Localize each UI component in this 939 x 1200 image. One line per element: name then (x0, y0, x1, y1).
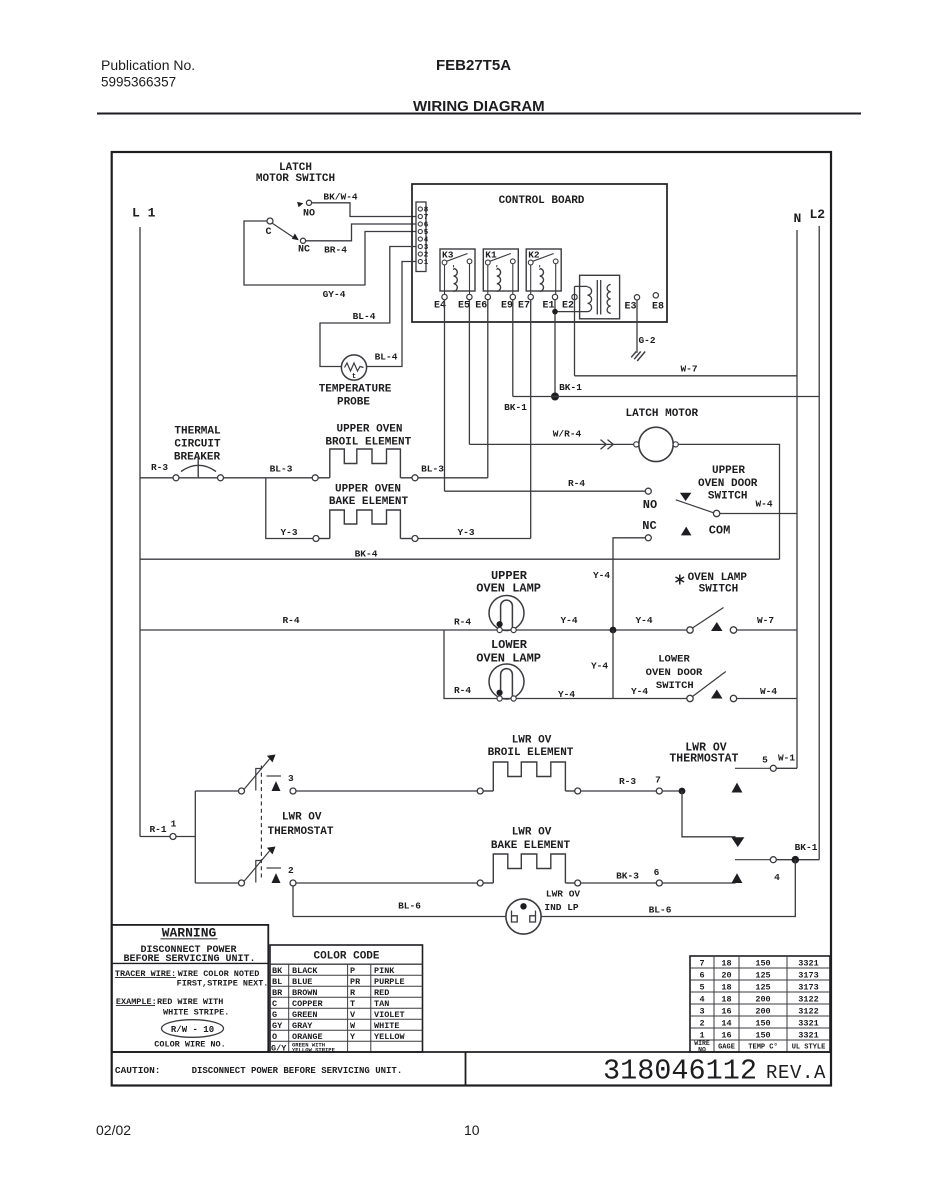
svg-text:BROIL ELEMENT: BROIL ELEMENT (325, 437, 411, 449)
svg-text:5995366357: 5995366357 (101, 75, 176, 90)
svg-text:200: 200 (755, 995, 770, 1005)
upper oven lamp (489, 596, 524, 631)
svg-text:FIRST,STRIPE NEXT.: FIRST,STRIPE NEXT. (177, 979, 269, 989)
wire R-4 lamp line (140, 629, 687, 631)
transformer T1 primary winding (588, 287, 592, 312)
junction BK-1 node (551, 393, 559, 401)
svg-text:NC: NC (298, 245, 310, 256)
terminal E4 (442, 294, 447, 299)
wire contact 5 to N (776, 767, 797, 769)
svg-text:2: 2 (288, 865, 294, 876)
wire BK-1 junction to L2 (555, 396, 819, 398)
svg-text:DISCONNECT POWER BEFORE SERVIC: DISCONNECT POWER BEFORE SERVICING UNIT. (192, 1066, 403, 1076)
svg-text:BL-4: BL-4 (353, 311, 376, 322)
svg-text:O: O (272, 1032, 277, 1042)
svg-text:Publication No.: Publication No. (101, 57, 195, 73)
terminal 7 (656, 788, 662, 794)
svg-text:GY: GY (272, 1021, 283, 1031)
svg-text:W-4: W-4 (755, 499, 772, 510)
svg-text:4: 4 (774, 872, 780, 883)
svg-text:BK-4: BK-4 (355, 549, 378, 560)
svg-text:GRAY: GRAY (292, 1021, 313, 1031)
svg-text:BROWN: BROWN (292, 988, 318, 998)
junction BK-1/BL-6 (792, 856, 800, 864)
svg-text:Y-3: Y-3 (457, 527, 474, 538)
warning divider (112, 962, 269, 964)
terminal E2 (572, 294, 577, 299)
svg-text:E9: E9 (501, 301, 513, 312)
wire bake element to E7 (418, 538, 531, 540)
upper oven broil element (312, 475, 318, 481)
wire broil element to E6 (418, 477, 488, 479)
wire lower door switch to N (737, 698, 797, 700)
latch motor switch common terminal C (267, 218, 273, 224)
svg-text:LOWER: LOWER (658, 654, 690, 666)
svg-text:E8: E8 (652, 302, 664, 313)
svg-text:BK-3: BK-3 (616, 871, 639, 882)
wire E9 vertical (512, 300, 514, 397)
svg-text:R: R (350, 988, 356, 998)
transformer T1 box (580, 275, 620, 319)
svg-text:t: t (352, 373, 356, 381)
svg-text:CIRCUIT: CIRCUIT (174, 439, 221, 451)
svg-text:R-4: R-4 (568, 478, 585, 489)
transformer T1 core (596, 280, 598, 315)
svg-text:4: 4 (699, 995, 704, 1005)
lower oven indicator lamp (506, 899, 541, 934)
wire connector pin3 BL-4 (320, 247, 416, 367)
svg-text:16: 16 (721, 1031, 731, 1041)
upper oven bake element (313, 536, 319, 542)
svg-text:3173: 3173 (798, 983, 818, 993)
terminal E9 (510, 294, 515, 299)
junction E1/transformer (552, 309, 558, 315)
svg-text:WHITE: WHITE (374, 1021, 400, 1031)
svg-text:L2: L2 (810, 207, 826, 222)
svg-text:150: 150 (755, 959, 770, 969)
svg-text:BL-6: BL-6 (649, 905, 672, 916)
svg-text:GY-4: GY-4 (323, 289, 346, 300)
wire junction elbow to lower contact (682, 791, 736, 837)
svg-text:E1: E1 (542, 301, 554, 312)
thermostat contact 5 blade (735, 767, 770, 769)
svg-text:RED: RED (374, 988, 389, 998)
wire R-4 E4 to NO (445, 490, 646, 492)
wire Y-4 vertical between lamp lines (612, 630, 614, 699)
svg-text:E3: E3 (624, 302, 636, 313)
relay K2 (526, 249, 561, 294)
svg-text:3321: 3321 (798, 1031, 818, 1041)
wire bake to terminal 6 (581, 882, 657, 884)
upper door switch NC terminal (645, 535, 651, 541)
color code table (270, 945, 423, 1052)
svg-text:COPPER: COPPER (292, 999, 324, 1009)
svg-text:TAN: TAN (374, 999, 389, 1009)
svg-text:COLOR CODE: COLOR CODE (313, 951, 379, 963)
svg-text:R/W - 10: R/W - 10 (171, 1025, 214, 1035)
svg-text:RED WIRE WITH: RED WIRE WITH (157, 997, 223, 1007)
transformer T1 secondary winding (607, 285, 611, 314)
svg-text:NC: NC (642, 519, 656, 533)
connector pin 1 (418, 259, 422, 263)
wire L1 vertical (139, 227, 141, 837)
wire C loop GY-4 to connector pin 5 (244, 221, 416, 285)
relay K1 (483, 249, 518, 294)
svg-text:NO: NO (643, 498, 657, 512)
svg-text:UL STYLE: UL STYLE (792, 1044, 826, 1052)
wire thermostat 2 to bake element (296, 882, 477, 884)
svg-text:14: 14 (721, 1019, 731, 1029)
svg-text:BK: BK (272, 966, 283, 976)
svg-text:Y-4: Y-4 (560, 615, 577, 626)
svg-text:UPPER OVEN: UPPER OVEN (335, 484, 401, 496)
svg-text:BROIL ELEMENT: BROIL ELEMENT (488, 747, 574, 759)
wire probe to connector pin1 (367, 262, 416, 367)
wire NC down Y-4 (613, 538, 645, 630)
bottom strip line (112, 1051, 831, 1053)
connector pin 7 (418, 214, 422, 218)
wire BK-4 motor return to L1 (140, 558, 780, 560)
svg-text:NO: NO (303, 209, 315, 220)
svg-text:PROBE: PROBE (337, 397, 370, 409)
svg-text:UPPER OVEN: UPPER OVEN (336, 424, 402, 436)
svg-text:Y-4: Y-4 (591, 661, 608, 672)
temperature probe (341, 355, 366, 380)
svg-text:BK/W-4: BK/W-4 (323, 192, 358, 203)
svg-text:P: P (350, 966, 355, 976)
svg-text:20: 20 (721, 971, 731, 981)
wire breaker to branch (224, 477, 313, 479)
svg-text:T: T (350, 999, 355, 1009)
svg-text:BR-4: BR-4 (324, 245, 347, 256)
svg-text:VIOLET: VIOLET (374, 1010, 405, 1020)
svg-text:GREEN: GREEN (292, 1010, 318, 1020)
terminal E1 (552, 294, 557, 299)
connector pin 6 (418, 222, 422, 226)
svg-text:LWR OV: LWR OV (282, 812, 322, 824)
wire broil to terminal 7 (581, 790, 657, 792)
svg-text:125: 125 (755, 983, 770, 993)
svg-text:Y: Y (350, 1032, 356, 1042)
svg-text:W-4: W-4 (760, 686, 777, 697)
wire W-7 E2 to N (575, 375, 798, 377)
svg-text:LATCH MOTOR: LATCH MOTOR (625, 408, 698, 420)
svg-text:Y-3: Y-3 (280, 527, 297, 538)
svg-text:3321: 3321 (798, 1019, 818, 1029)
svg-text:LOWER: LOWER (491, 638, 528, 652)
wire gauge table (690, 956, 830, 1052)
svg-text:MOTOR SWITCH: MOTOR SWITCH (256, 173, 335, 185)
latch motor (639, 427, 673, 461)
svg-text:R-3: R-3 (619, 776, 636, 787)
svg-text:OVEN DOOR: OVEN DOOR (698, 478, 758, 490)
svg-text:C: C (265, 227, 271, 238)
svg-text:N: N (794, 211, 802, 226)
wire E9 to BK-1 junction (513, 396, 555, 398)
wire E7 vertical Y-3 (530, 300, 532, 539)
svg-text:V: V (350, 1010, 356, 1020)
svg-text:TEMPERATURE: TEMPERATURE (319, 384, 392, 396)
svg-text:3321: 3321 (798, 959, 818, 969)
wire COM to N (720, 513, 797, 515)
svg-text:THERMAL: THERMAL (174, 426, 221, 438)
svg-text:200: 200 (755, 1007, 770, 1017)
wire terminal 4 to L2 junction (776, 859, 819, 861)
svg-text:G: G (272, 1010, 277, 1020)
latch motor switch NC terminal (300, 238, 305, 243)
svg-text:E5: E5 (458, 301, 470, 312)
lower oven thermostat contact 3 (239, 755, 297, 795)
svg-text:OVEN LAMP: OVEN LAMP (688, 572, 748, 584)
svg-text:R-1: R-1 (149, 824, 166, 835)
svg-text:BLACK: BLACK (292, 966, 318, 976)
svg-text:CONTROL BOARD: CONTROL BOARD (499, 195, 585, 207)
svg-text:W-1: W-1 (778, 753, 795, 764)
thermal circuit breaker (179, 477, 218, 479)
svg-text:1: 1 (699, 1031, 704, 1041)
svg-text:E2: E2 (562, 301, 574, 312)
svg-text:GAGE: GAGE (718, 1044, 735, 1052)
upper door switch NO contact marker (680, 493, 692, 501)
thermostat contact 6 marker (732, 873, 743, 883)
connector pin 3 (418, 244, 422, 248)
svg-text:10: 10 (464, 1122, 480, 1138)
svg-text:BREAKER: BREAKER (174, 452, 221, 464)
wire E4 vertical R-4 (444, 300, 446, 492)
thermostat contact 5 marker (732, 783, 743, 793)
wire N vertical (796, 230, 798, 768)
svg-text:BLUE: BLUE (292, 977, 312, 987)
terminal 4 (770, 857, 776, 863)
lower oven door switch (687, 695, 693, 701)
svg-text:BAKE ELEMENT: BAKE ELEMENT (491, 840, 571, 852)
svg-text:7: 7 (655, 775, 661, 786)
svg-text:BR: BR (272, 988, 283, 998)
svg-text:G-2: G-2 (638, 335, 655, 346)
svg-text:18: 18 (721, 983, 731, 993)
wire E3 down to ground (636, 300, 638, 353)
svg-text:R-3: R-3 (151, 462, 168, 473)
wire NC to connector pin 6 (306, 224, 416, 241)
svg-text:BL-4: BL-4 (375, 352, 398, 363)
svg-text:18: 18 (721, 995, 731, 1005)
upper door switch blade (676, 500, 714, 513)
svg-text:150: 150 (755, 1031, 770, 1041)
svg-text:BL: BL (272, 977, 282, 987)
svg-text:02/02: 02/02 (96, 1122, 131, 1138)
lower oven bake element (477, 880, 483, 886)
header rule (97, 113, 861, 115)
svg-text:18: 18 (721, 959, 731, 969)
upper door switch COM terminal (713, 510, 719, 516)
svg-text:C: C (272, 999, 277, 1009)
terminal 1 (140, 836, 170, 838)
wire latch motor return (678, 444, 779, 559)
relay K3 (440, 249, 475, 294)
terminal E8 (653, 293, 658, 298)
lower oven lamp (489, 664, 524, 699)
upper door switch NO terminal (645, 488, 651, 494)
svg-text:1: 1 (424, 259, 429, 267)
svg-text:BL-3: BL-3 (270, 464, 293, 475)
wire BL-6 drop from thermostat 2 (292, 886, 294, 917)
terminal 6 (656, 880, 662, 886)
svg-text:FEB27T5A: FEB27T5A (436, 57, 511, 74)
svg-text:LWR OV: LWR OV (546, 889, 581, 900)
svg-text:R-4: R-4 (282, 615, 299, 626)
svg-text:1: 1 (171, 819, 177, 830)
svg-text:LWR OV: LWR OV (512, 827, 552, 839)
svg-text:SWITCH: SWITCH (656, 680, 694, 692)
control board box (412, 184, 667, 322)
svg-text:CAUTION:: CAUTION: (115, 1065, 161, 1076)
lower oven thermostat contact 2 (239, 847, 297, 887)
svg-text:BK-1: BK-1 (504, 402, 527, 413)
wire branch to lower lamp (444, 630, 687, 699)
svg-text:LWR OV: LWR OV (512, 735, 552, 747)
svg-text:OVEN LAMP: OVEN LAMP (476, 651, 541, 665)
oven lamp switch (687, 627, 693, 633)
svg-text:COM: COM (709, 524, 731, 538)
svg-text:R-4: R-4 (454, 685, 471, 696)
connector block P1 (416, 202, 426, 272)
terminal E3 (634, 295, 639, 300)
wire E2 to transformer primary top (575, 285, 588, 287)
svg-text:PINK: PINK (374, 966, 395, 976)
svg-text:6: 6 (699, 971, 704, 981)
svg-text:Y-4: Y-4 (558, 689, 575, 700)
svg-text:6: 6 (654, 867, 660, 878)
svg-text:TEMP C°: TEMP C° (748, 1043, 777, 1052)
wire E5 vertical (468, 300, 470, 445)
svg-text:W/R-4: W/R-4 (553, 429, 582, 440)
wire E2 vertical (574, 286, 576, 375)
terminal E6 (485, 294, 490, 299)
ground symbol G-2 (637, 352, 645, 362)
wire E6 vertical BL-3 (487, 300, 489, 478)
lower oven thermostat mechanical link (260, 766, 262, 879)
svg-text:E6: E6 (475, 301, 487, 312)
svg-text:3173: 3173 (798, 971, 818, 981)
wire terminal 6 to contact marker (662, 882, 735, 884)
svg-text:150: 150 (755, 1019, 770, 1029)
svg-text:WIRE COLOR NOTED: WIRE COLOR NOTED (178, 969, 260, 979)
latch motor switch NO terminal (306, 200, 311, 205)
svg-text:WIRING DIAGRAM: WIRING DIAGRAM (413, 98, 545, 115)
svg-text:318046112: 318046112 (603, 1055, 757, 1088)
svg-text:7: 7 (699, 959, 704, 969)
latch motor switch NO arrow (297, 202, 303, 207)
svg-text:UPPER: UPPER (712, 465, 745, 477)
wire lamp switch to N (737, 629, 797, 631)
svg-text:16: 16 (721, 1007, 731, 1017)
upper door switch NC contact marker (681, 527, 692, 536)
junction at 7 (662, 790, 682, 792)
svg-text:IND LP: IND LP (544, 902, 579, 913)
wire indicator lamp to BK-1 junction (541, 860, 795, 917)
wire E1 vertical BK-1 (554, 300, 556, 397)
terminal E7 (528, 294, 533, 299)
svg-text:2: 2 (699, 1019, 704, 1029)
svg-text:BK-1: BK-1 (795, 842, 818, 853)
wire W/R-4 chevrons (601, 440, 614, 450)
svg-text:Y-4: Y-4 (631, 686, 648, 697)
connector pin 8 (418, 207, 422, 211)
svg-text:W-7: W-7 (680, 364, 697, 375)
svg-text:W-7: W-7 (757, 615, 774, 626)
svg-text:COLOR WIRE NO.: COLOR WIRE NO. (154, 1040, 225, 1050)
svg-text:THERMOSTAT: THERMOSTAT (267, 826, 333, 838)
lower oven broil element (477, 788, 483, 794)
wire thermostat 3 to broil element (296, 790, 477, 792)
svg-text:OVEN LAMP: OVEN LAMP (476, 581, 541, 595)
latch motor switch blade C-NC with arrow (272, 223, 294, 238)
junction Y-4 node (610, 627, 617, 634)
wire NO to connector pin 7 (312, 203, 416, 217)
wire L2 vertical (818, 226, 820, 860)
svg-text:SWITCH: SWITCH (699, 584, 739, 596)
wire W/R-4 E5 to motor (469, 443, 633, 445)
svg-text:REV.A: REV.A (766, 1062, 826, 1084)
wire L1 to breaker (140, 477, 173, 479)
svg-text:W: W (350, 1021, 356, 1031)
wire terminal 1 branch (176, 836, 195, 838)
svg-text:3122: 3122 (798, 995, 818, 1005)
connector pin 4 (418, 237, 422, 241)
svg-text:PR: PR (350, 977, 361, 987)
wire E1 junction to transformer primary bottom (555, 311, 588, 313)
svg-text:YELLOW: YELLOW (374, 1032, 406, 1042)
svg-text:BAKE ELEMENT: BAKE ELEMENT (329, 496, 409, 508)
svg-text:5: 5 (699, 983, 704, 993)
svg-text:THERMOSTAT: THERMOSTAT (669, 753, 738, 766)
thermostat contact 4 blade (735, 859, 770, 861)
wire BL-6 to indicator lamp (293, 916, 506, 918)
svg-text:3: 3 (288, 773, 294, 784)
connector pin 2 (418, 252, 422, 256)
oven lamp switch label (676, 575, 685, 585)
svg-text:BK-1: BK-1 (559, 382, 582, 393)
svg-text:5: 5 (762, 755, 768, 766)
svg-text:3: 3 (699, 1007, 704, 1017)
svg-text:3122: 3122 (798, 1007, 818, 1017)
bottom strip divider (465, 1052, 467, 1086)
svg-text:Y-4: Y-4 (635, 615, 652, 626)
svg-text:BL-3: BL-3 (421, 464, 444, 475)
diagram border frame (112, 152, 831, 1086)
wire branch to bake element (266, 478, 313, 539)
terminal E5 (467, 294, 472, 299)
svg-text:125: 125 (755, 971, 770, 981)
svg-text:Y-4: Y-4 (593, 570, 610, 581)
svg-text:PURPLE: PURPLE (374, 977, 405, 987)
thermostat contact 4 upper marker (731, 837, 744, 847)
svg-text:OVEN DOOR: OVEN DOOR (646, 667, 703, 679)
warning box (112, 925, 269, 1052)
svg-text:BL-6: BL-6 (398, 901, 421, 912)
connector pin 5 (418, 229, 422, 233)
svg-text:E7: E7 (518, 301, 530, 312)
warning example ellipse (162, 1020, 224, 1038)
svg-text:R-4: R-4 (454, 617, 471, 628)
svg-text:SWITCH: SWITCH (708, 491, 748, 503)
svg-text:L 1: L 1 (132, 206, 156, 221)
svg-text:WHITE STRIPE.: WHITE STRIPE. (163, 1008, 229, 1018)
